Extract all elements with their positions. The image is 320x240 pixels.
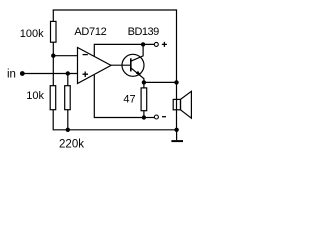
svg-text:47: 47 <box>123 94 135 106</box>
label - (supply) <box>162 116 166 118</box>
terminal: - supply <box>154 115 158 119</box>
wire: V- junction to terminal <box>144 117 155 119</box>
transistor emitter lead <box>131 68 144 83</box>
wire: top feedback rail <box>53 9 177 11</box>
transistor base bar <box>130 58 132 71</box>
op-amp U1 AD712 <box>78 48 112 84</box>
op-amp minus sign <box>83 54 88 56</box>
wire: 47 top lead <box>143 82 145 88</box>
svg-text:100k: 100k <box>20 28 44 40</box>
resistor 220k <box>65 86 71 110</box>
resistor 100k <box>51 21 57 42</box>
wire: emitter to output node <box>144 81 177 83</box>
wire: op-amp output to transistor base <box>111 64 131 66</box>
transistor collector lead <box>131 44 143 61</box>
node: ground junction <box>174 128 178 132</box>
wire: 100k bottom lead <box>52 42 54 56</box>
wire: input to op-amp plus input <box>22 73 77 75</box>
svg-text:BD139: BD139 <box>128 26 160 38</box>
transistor emitter arrow <box>136 71 141 76</box>
wire: 10k bottom lead and rail corner <box>53 110 68 130</box>
wire: bottom ground rail <box>68 129 177 131</box>
resistor 10k <box>50 86 56 110</box>
node: inverting input junction <box>51 54 55 58</box>
node: V- junction <box>142 115 146 119</box>
wire: op-amp V- pin to V- junction <box>94 75 144 118</box>
svg-text:220k: 220k <box>59 139 84 151</box>
transistor Q1 circle <box>122 54 144 76</box>
node: plus input / 220k junction <box>66 71 70 75</box>
svg-text:AD712: AD712 <box>74 26 106 38</box>
node: V+ / collector junction <box>141 42 145 46</box>
wire: 220k top lead <box>67 74 69 86</box>
wire: 47 bottom lead <box>143 111 145 118</box>
terminal: + supply <box>154 42 158 46</box>
svg-text:10k: 10k <box>26 90 44 102</box>
speaker cone <box>181 91 192 118</box>
wire: inverting node to op-amp minus input <box>53 55 77 57</box>
node: ground rail junction at 220k <box>66 128 70 132</box>
svg-text:in: in <box>7 68 16 80</box>
input terminal dot <box>20 71 25 76</box>
wire: right output rail <box>176 9 178 129</box>
resistor 47 <box>141 88 147 111</box>
op-amp plus sign <box>83 72 89 78</box>
wire: op-amp V+ pin <box>94 44 154 56</box>
wire: 100k top lead <box>52 10 54 21</box>
node: emitter junction <box>142 80 146 84</box>
label + (supply) <box>162 42 167 47</box>
node: output node junction <box>174 80 178 84</box>
ground stem <box>176 130 178 140</box>
speaker box <box>173 99 180 109</box>
wire: inverting node down to 10k (crosses input wire) <box>52 56 54 86</box>
wire: 220k bottom lead <box>67 110 69 130</box>
ground bar <box>171 140 183 142</box>
